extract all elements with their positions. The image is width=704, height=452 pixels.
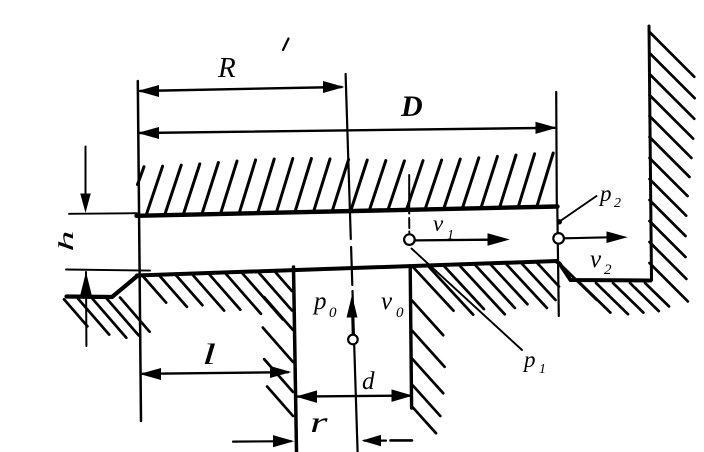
dimension R line (140, 82, 343, 97)
right wall edge (649, 26, 652, 280)
svg-text:0: 0 (396, 305, 404, 321)
line below pad edge to p2 (557, 207, 559, 316)
v1 arrow (415, 234, 508, 245)
pocket left wall (294, 267, 297, 452)
v1 node (404, 234, 415, 245)
label R (217, 52, 236, 84)
pocket right wall (410, 266, 411, 408)
p2 leader dot (557, 219, 562, 224)
left outer land surface (67, 276, 138, 297)
dimension r line (233, 436, 412, 447)
svg-text:r: r (310, 406, 328, 439)
svg-text:v: v (381, 288, 393, 315)
bearing pad bottom face (137, 207, 558, 216)
film bottom tick (66, 270, 150, 271)
svg-text:R: R (217, 52, 236, 84)
v2 arrow (564, 232, 626, 242)
dimension D line (140, 122, 556, 138)
svg-text:p: p (598, 181, 612, 206)
label v2 (590, 246, 612, 278)
svg-text:v: v (590, 246, 602, 273)
left extension line (138, 81, 141, 421)
svg-text:p: p (312, 288, 327, 315)
svg-text:d: d (362, 368, 375, 395)
svg-text:2: 2 (614, 196, 621, 211)
label h (54, 231, 78, 252)
step down to outlet ledge (557, 262, 651, 281)
film top tick (69, 212, 137, 215)
left land deep hatching (143, 272, 293, 416)
svg-text:D: D (400, 90, 423, 123)
right wall hatching (650, 32, 695, 301)
svg-text:v: v (433, 211, 444, 236)
dimension d line (297, 390, 412, 402)
svg-text:l: l (202, 338, 216, 371)
bearing pad hatching (138, 153, 554, 214)
dimension l line (142, 367, 290, 380)
svg-text:p: p (522, 347, 536, 372)
label d (362, 368, 375, 395)
lower plate top surface (137, 261, 557, 276)
right land hatching (412, 263, 560, 434)
label D (400, 90, 423, 123)
svg-text:h: h (54, 231, 78, 252)
stray tick mark (283, 39, 289, 51)
pad right edge extension (555, 92, 558, 207)
left outer land hatching (64, 298, 150, 338)
p0 supply arrow (347, 297, 357, 335)
p2 leader line (560, 196, 597, 222)
label p0 (312, 288, 337, 321)
label v0 (381, 288, 404, 321)
line above v1 node (408, 175, 410, 235)
svg-text:0: 0 (329, 305, 337, 321)
node on centre line (348, 335, 358, 345)
svg-text:2: 2 (604, 262, 612, 278)
label r (310, 406, 328, 439)
p1 leader line (412, 249, 523, 351)
label v1 (433, 211, 454, 243)
label l (202, 338, 216, 371)
label p2 (598, 181, 621, 211)
label p1 (522, 347, 546, 377)
dimension h lines (81, 147, 91, 347)
svg-text:1: 1 (447, 228, 454, 243)
v2 node (553, 233, 564, 244)
right outer ledge hatching (563, 267, 669, 314)
centre line (346, 74, 358, 452)
svg-text:1: 1 (539, 362, 546, 377)
